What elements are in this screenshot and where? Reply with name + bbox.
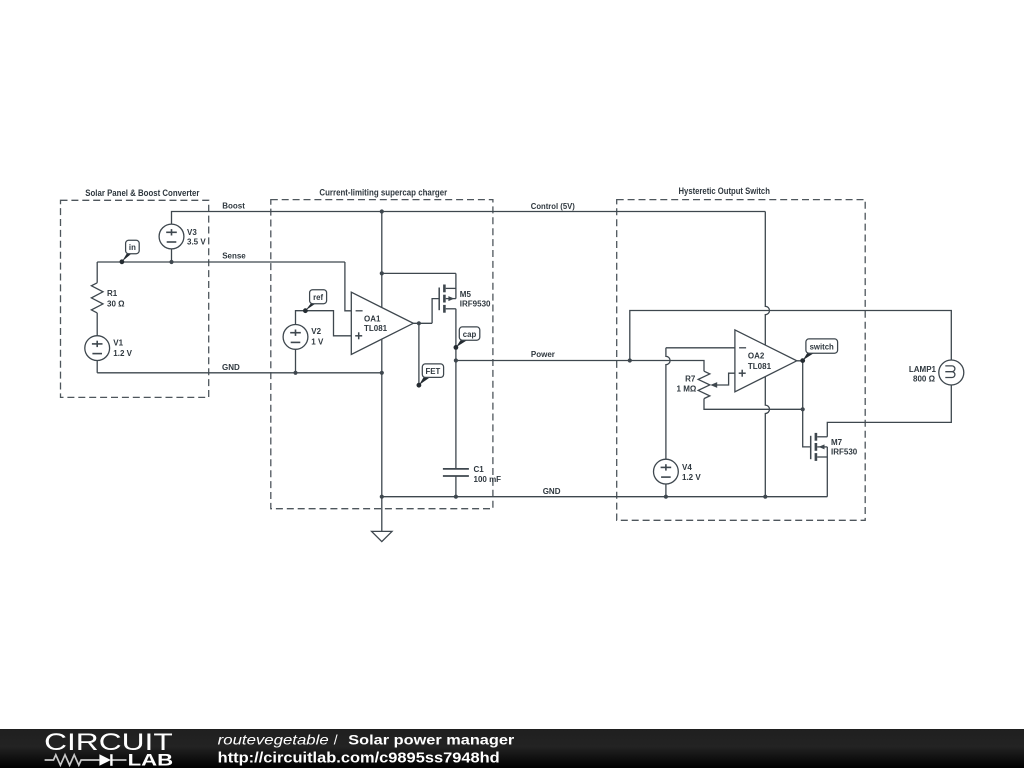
svg-text:Hysteretic Output Switch: Hysteretic Output Switch <box>679 186 770 196</box>
wire FET stub <box>418 323 420 385</box>
node junction GND rail / C1 <box>454 495 458 499</box>
wire V4 bottom lead <box>665 484 667 497</box>
wire V4 top vertical with hop over Power <box>666 348 670 459</box>
svg-text:M5: M5 <box>460 290 472 299</box>
svg-text:in: in <box>129 243 136 252</box>
node junction Power / M5 drain <box>454 358 458 362</box>
svg-text:30 Ω: 30 Ω <box>107 299 125 308</box>
svg-text:Power: Power <box>531 350 555 359</box>
svg-text:GND: GND <box>543 487 561 496</box>
wire V1 bottom to GND <box>96 361 98 373</box>
voltage source V1 <box>85 336 110 361</box>
lamp LAMP1 <box>939 360 964 385</box>
op-amp OA1 <box>351 292 413 354</box>
svg-text:IRF530: IRF530 <box>831 448 858 457</box>
wire OA1 supply trunk vertical <box>381 212 383 532</box>
svg-text:V3: V3 <box>187 228 197 237</box>
svg-text:Sense: Sense <box>222 251 246 260</box>
wire OA1 output to M5 gate <box>432 299 439 324</box>
svg-text:LAMP1: LAMP1 <box>909 365 937 374</box>
svg-text:TL081: TL081 <box>364 324 388 333</box>
svg-text:100 mF: 100 mF <box>474 475 502 484</box>
flag cap <box>454 327 480 350</box>
svg-text:Control (5V): Control (5V) <box>531 202 575 211</box>
dashed region box: Solar Panel & Boost Converter <box>61 200 209 397</box>
node junction GND rail / V4 <box>664 495 668 499</box>
wire R1 top lead <box>96 262 98 283</box>
wire M5 source to trunk <box>382 272 456 274</box>
svg-text:1 V: 1 V <box>311 337 324 346</box>
flags <box>120 240 838 387</box>
svg-text:cap: cap <box>463 330 477 339</box>
svg-text:switch: switch <box>810 343 834 352</box>
wire M7 drain to lamp bottom <box>827 385 951 437</box>
svg-text:http://circuitlab.com/c9895ss7: http://circuitlab.com/c9895ss7948hd <box>218 750 500 767</box>
transistor M5 IRF9530 <box>439 273 456 312</box>
footer bar <box>0 729 1024 768</box>
wire Sense <box>97 261 345 263</box>
ground symbol <box>372 531 392 541</box>
node junction Sense / V3 <box>169 260 173 264</box>
svg-text:/: / <box>334 732 338 747</box>
svg-text:FET: FET <box>426 367 441 376</box>
svg-text:M7: M7 <box>831 438 843 447</box>
wire V3 bottom lead <box>171 249 173 262</box>
voltage source V2 <box>283 325 308 350</box>
svg-text:OA1: OA1 <box>364 315 381 324</box>
svg-text:R1: R1 <box>107 289 118 298</box>
wire V2 bottom lead <box>295 349 297 373</box>
text layer <box>85 186 936 496</box>
svg-text:ref: ref <box>313 293 323 302</box>
svg-text:GND: GND <box>222 363 240 372</box>
svg-text:3.5 V: 3.5 V <box>187 238 206 247</box>
svg-text:Solar Panel & Boost Converter: Solar Panel & Boost Converter <box>85 188 200 198</box>
node junction on Boost at supply trunk <box>380 209 384 213</box>
wire Boost/Control top rail <box>172 212 766 225</box>
svg-text:OA2: OA2 <box>748 351 765 360</box>
flag FET <box>417 364 444 388</box>
wire OA2 supply vertical with hops <box>765 212 769 497</box>
dashed region box: Current-limiting supercap charger <box>271 200 493 509</box>
node junction feedback / OA2 output <box>801 407 805 411</box>
wire Power to R7 <box>630 361 704 372</box>
svg-text:IRF9530: IRF9530 <box>460 300 491 309</box>
dashed region box: Hysteretic Output Switch <box>617 200 866 521</box>
resistor R1 <box>91 283 103 313</box>
svg-text:800 Ω: 800 Ω <box>913 374 936 383</box>
wire GND rail <box>382 496 828 498</box>
flag ref <box>303 290 327 313</box>
svg-text:routevegetable: routevegetable <box>218 732 329 747</box>
svg-text:1 MΩ: 1 MΩ <box>677 384 697 393</box>
wire GND left <box>97 372 382 374</box>
wire V2 top to OA1 plus input <box>296 311 352 336</box>
svg-text:C1: C1 <box>474 465 485 474</box>
svg-text:V2: V2 <box>311 327 321 336</box>
node junction trunk / M5 source wire <box>380 271 384 275</box>
svg-text:1.2 V: 1.2 V <box>682 473 701 482</box>
wire lamp top branch <box>630 311 952 361</box>
wire OA2 minus input <box>666 347 735 349</box>
flag switch <box>800 339 837 363</box>
resistor R7 (rheostat) <box>698 371 710 398</box>
voltage source V3 <box>159 224 184 249</box>
op-amp OA2 <box>735 330 797 392</box>
capacitor C1 <box>443 469 469 476</box>
wire C1 bottom lead <box>455 476 457 497</box>
flag in <box>120 240 140 264</box>
node junction OA1 output <box>417 321 421 325</box>
wire R7 bottom feedback <box>704 399 803 410</box>
logo resistor-diode line <box>45 755 127 765</box>
wire R1 to V1 <box>96 313 98 336</box>
wire OA2 output down to M7 gate <box>797 361 811 447</box>
wire OA1 output <box>413 322 432 324</box>
svg-text:1.2 V: 1.2 V <box>113 349 132 358</box>
svg-text:V4: V4 <box>682 463 692 472</box>
wire M5 drain down to C1 <box>455 309 457 469</box>
wire Sense jog into OA1 minus input <box>345 262 351 311</box>
node junction trunk / GND left wire <box>380 371 384 375</box>
node junction GND rail / OA2 supply <box>763 495 767 499</box>
svg-text:Current-limiting supercap char: Current-limiting supercap charger <box>319 188 447 198</box>
transistor M7 IRF530 <box>811 433 828 497</box>
node junction trunk / GND rail <box>380 495 384 499</box>
node junction Power / lamp branch <box>628 358 632 362</box>
svg-text:Solar power manager: Solar power manager <box>348 732 515 747</box>
wire Power <box>456 360 630 362</box>
R7 wiper arrow to OA2 plus <box>717 373 735 385</box>
node junction GND / V2 <box>293 371 297 375</box>
svg-text:R7: R7 <box>685 375 696 384</box>
svg-text:V1: V1 <box>113 339 123 348</box>
svg-text:TL081: TL081 <box>748 362 772 371</box>
svg-text:Boost: Boost <box>222 201 245 210</box>
svg-text:LAB: LAB <box>128 750 174 768</box>
voltage source V4 <box>654 459 679 484</box>
